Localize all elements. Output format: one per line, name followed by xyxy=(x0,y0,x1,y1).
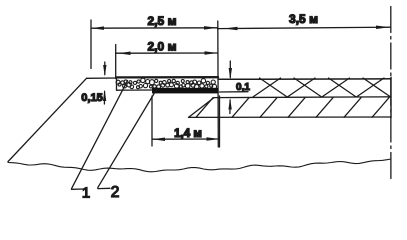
svg-text:2: 2 xyxy=(111,184,120,201)
svg-text:0,15: 0,15 xyxy=(81,92,102,104)
gravel layer (band) outline xyxy=(117,77,219,90)
pavement right edge xyxy=(390,77,392,117)
dimension 0,1 xyxy=(228,61,250,114)
svg-text:3,5 м: 3,5 м xyxy=(289,12,318,26)
top course bottom line xyxy=(214,96,391,99)
base course bottom line xyxy=(189,116,392,118)
svg-text:1,4 м: 1,4 м xyxy=(174,128,202,140)
svg-text:0,1: 0,1 xyxy=(236,82,250,93)
asphalt strip (black) xyxy=(152,88,219,94)
svg-text:2,0 м: 2,0 м xyxy=(148,39,177,53)
pavement top edge xyxy=(218,78,391,81)
leader line 2 xyxy=(98,90,157,202)
leader line 1 xyxy=(72,81,128,202)
joint line under strip xyxy=(220,91,249,93)
dimension 1,4 m xyxy=(152,96,220,147)
base course left slope xyxy=(189,98,215,118)
gravel dots xyxy=(116,78,217,89)
svg-text:1: 1 xyxy=(82,185,90,202)
svg-text:2,5 м: 2,5 м xyxy=(148,14,177,28)
dimension 2,0 m xyxy=(116,39,218,78)
dimension 2,5 m xyxy=(91,14,218,69)
embankment slope line xyxy=(8,78,87,161)
shared extension line between 2,5 and 3,5 xyxy=(217,21,220,147)
embankment shoulder top line xyxy=(87,77,118,79)
base course diagonal hatch xyxy=(196,98,389,118)
dimension 3,5 m xyxy=(218,12,391,30)
road axis dash-dot line xyxy=(390,7,392,182)
top course cross hatch xyxy=(253,78,391,97)
ground wavy line xyxy=(8,159,391,172)
dimension 0,15 xyxy=(81,62,106,104)
